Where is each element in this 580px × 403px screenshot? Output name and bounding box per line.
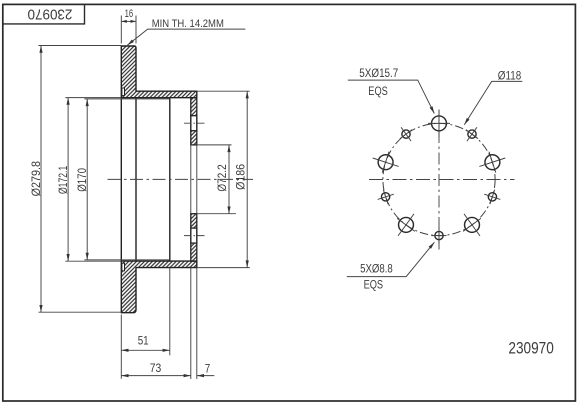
ring back face edge inside hat [135,98,137,261]
hole 8.8 at 36 deg [466,127,478,141]
groove notch bottom left face [122,263,125,271]
hat opening edge at left face [120,98,122,261]
bolt hole 15.7 at 0 deg [428,110,450,137]
bolt circle O118 (dash-dot) [383,123,495,235]
flange face extension lines through center bore [191,145,197,214]
bolt hole 15.7 at 288 deg [373,152,399,173]
svg-text:Ø279.8: Ø279.8 [29,161,43,197]
leader O118 [464,81,522,124]
right view center cross vertical [438,110,440,250]
friction ring + hat cylinder bottom (hatched section) [121,261,197,313]
dim O186 line [246,91,248,267]
leader MIN TH. 14.2MM [127,29,245,45]
section centerline (axis) [108,178,254,180]
svg-text:Ø172.1: Ø172.1 [56,166,70,195]
bolt hole 15.7 at 72 deg [479,152,505,173]
leader 5X O8.8 [347,242,435,276]
hole 8.8 at 180 deg [431,227,446,244]
svg-text:Ø72.2: Ø72.2 [215,164,229,192]
dim 7 line + arrow [197,375,215,377]
svg-text:73: 73 [150,361,162,375]
dim O72.2 extension lines [197,145,236,214]
mounting flange lower (hatched, split by bolt hole) [191,214,197,228]
bolt hole 15.7 at 144 deg [463,214,481,236]
svg-text:5XØ15.7: 5XØ15.7 [359,66,398,80]
flange face extension lines down to 73/7 dimension [191,268,197,379]
friction ring + hat cylinder top (hatched section) [121,46,197,98]
dim O170 extension lines [84,99,121,260]
drum surface O170 edges [121,99,170,260]
dim O72.2 line [228,145,230,214]
svg-text:16: 16 [125,8,134,20]
svg-text:230970: 230970 [28,6,73,22]
hole 8.8 at 324 deg [400,127,412,141]
mounting flange upper (hatched, split by bolt hole) [191,98,197,116]
dim O279.8 line [40,46,42,313]
svg-text:Ø118: Ø118 [498,68,522,82]
bolt hole 15.7 at 216 deg [397,214,415,236]
dim 51 extension lines [121,268,170,379]
leader 5X O15.7 [348,80,435,113]
right view center cross horizontal [369,179,515,181]
dim 73 line + arrows [121,375,191,377]
dim O186 extension lines [197,91,250,267]
dim O172.1 line [67,98,69,262]
svg-text:230970: 230970 [508,340,553,358]
svg-text:EQS: EQS [364,277,384,291]
hat interior bottom face edge (51 depth) [169,98,171,261]
dim O172.1 extension lines [65,98,121,262]
dim O279.8 extension lines [39,46,122,313]
dim 16 extension lines [121,16,136,44]
svg-text:7: 7 [205,361,211,375]
svg-text:Ø170: Ø170 [75,168,89,192]
groove notch top left face [122,88,125,96]
hole 8.8 at 108 deg [484,190,500,205]
svg-text:5XØ8.8: 5XØ8.8 [360,262,393,276]
bolt hole axis top (section) [184,122,207,124]
bolt hole axis bottom (section) [184,235,207,237]
svg-text:EQS: EQS [368,84,388,98]
dim 16 line + arrows [121,20,136,22]
title box top-left [3,4,85,24]
svg-text:Ø186: Ø186 [234,164,248,190]
dim O170 line [86,99,88,260]
dim 51 line + arrows [121,349,170,351]
flange face lines through bolt holes [191,116,197,243]
hole 8.8 at 252 deg [378,190,394,205]
svg-text:51: 51 [138,334,149,348]
svg-text:MIN TH. 14.2MM: MIN TH. 14.2MM [152,18,224,30]
